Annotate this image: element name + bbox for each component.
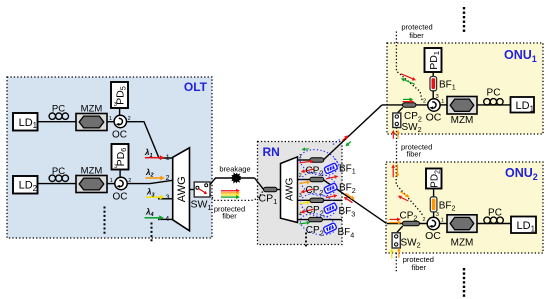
svg-text:3: 3	[114, 102, 117, 108]
svg-text:MZM: MZM	[81, 165, 103, 176]
blue protection loop row4	[298, 210, 338, 238]
filter BF2 ONU2	[430, 197, 437, 212]
orange arrow up below ONU2	[398, 251, 400, 258]
coupler CP2 row2	[310, 177, 324, 181]
red arrow row1 tilted	[326, 177, 335, 179]
wire RN row3 continues to edge	[324, 199, 342, 201]
polarization controller PC ONU2	[484, 217, 490, 223]
svg-text:OC: OC	[112, 130, 127, 141]
svg-text:1: 1	[441, 218, 444, 224]
filter BF1 RN	[324, 163, 338, 174]
breakage star	[230, 172, 242, 183]
wire AWG to SW1	[190, 189, 195, 191]
lambda-4 arrow green	[145, 217, 160, 219]
svg-text:1: 1	[109, 116, 112, 122]
svg-text:MZM: MZM	[451, 237, 474, 248]
ellipsis dots RN below row4	[305, 233, 307, 235]
svg-text:MZM: MZM	[81, 104, 103, 115]
green arrow protection diag ONU1	[404, 80, 414, 84]
svg-text:fiber: fiber	[412, 263, 427, 272]
svg-text:OLT: OLT	[184, 80, 208, 94]
wire OC2 to AWG input 2	[127, 180, 173, 183]
protected fiber dotted wire from SW1 to CP1	[210, 190, 263, 200]
red arrow above CP2 ONU1	[403, 101, 411, 103]
ellipsis dots below OLT row2	[104, 207, 106, 209]
green arrow RN to ONU1 upstream	[348, 142, 350, 144]
RN block box	[258, 142, 343, 245]
modulator MZM1	[76, 114, 107, 131]
svg-text:OC: OC	[426, 112, 442, 124]
wire bend down to CP1	[255, 178, 264, 189]
laser LD1 ONU1	[511, 97, 535, 113]
laser LD2	[13, 176, 38, 194]
wire MZM to LD ONU1	[477, 104, 511, 106]
wire OC2 to PD6	[119, 170, 121, 178]
protected path arrow yellow	[221, 194, 236, 196]
circulator OC ONU1	[428, 99, 440, 111]
modulator MZM2	[76, 176, 107, 193]
svg-text:2: 2	[166, 175, 170, 182]
wire LD1 to MZM1	[38, 121, 77, 123]
svg-text:MZM: MZM	[451, 115, 474, 126]
coupler CP2 ONU2	[403, 221, 420, 226]
blue protection loop row2	[298, 169, 338, 200]
svg-text:AWG: AWG	[176, 176, 188, 202]
coupler CP2 row1	[310, 158, 324, 162]
svg-text:2: 2	[299, 173, 302, 179]
circulator OC1	[114, 115, 126, 127]
svg-text:fiber: fiber	[407, 149, 422, 158]
wire OC1 to PD5	[119, 108, 121, 115]
lambda-3 arrow yellow	[146, 196, 160, 198]
laser LD1	[13, 113, 38, 131]
ONU1 block box	[387, 43, 543, 134]
laser LD ONU2	[511, 217, 536, 234]
blue loop exit dots row1	[334, 159, 342, 172]
svg-text:OC: OC	[425, 230, 441, 242]
lambda-1 arrow red	[145, 157, 160, 159]
wire RN row1 diagonal to ONU1	[324, 105, 382, 160]
protected path arrow red	[221, 190, 236, 192]
wire OC to MZM ONU1	[440, 104, 447, 106]
wire MZM to LD ONU2	[477, 223, 511, 225]
svg-text:OC: OC	[113, 191, 128, 202]
wire CP1 to AWG RN	[277, 189, 281, 191]
red arrow left of CP2 ONU2	[390, 218, 398, 220]
orange arrow left of CP2 ONU2	[390, 222, 399, 224]
polarization controller PC row1	[49, 113, 55, 119]
wire main line ONU1	[382, 104, 428, 106]
polarization controller PC ONU1	[484, 99, 490, 105]
wire BF1 to OC ONU1	[432, 91, 434, 99]
yellow arrow up below ONU2	[391, 252, 393, 259]
coupler CP2 row3	[310, 198, 324, 202]
photodiode PD2	[426, 169, 442, 189]
protected path arrow orange	[221, 192, 236, 194]
wire RN row2 diagonal through BF2 to ONU2	[324, 180, 387, 223]
red arrow row3 upstream	[304, 209, 313, 211]
AWG OLT	[173, 148, 190, 231]
red arrow protection diag ONU1	[401, 74, 413, 79]
svg-text:breakage: breakage	[219, 164, 250, 173]
svg-text:PC: PC	[487, 87, 501, 98]
green arrow row4 downstream	[300, 223, 307, 224]
wire RN row2	[298, 179, 311, 181]
ONU2 block box	[386, 162, 543, 253]
AWG RN	[281, 157, 298, 223]
filter BF2 RN	[324, 183, 338, 194]
wire OC to MZM ONU2	[440, 223, 447, 225]
polarization controller PC row2	[49, 175, 55, 181]
wire SW2 to CP2 ONU2	[397, 226, 403, 233]
OLT block box	[7, 77, 212, 238]
photodiode PD1	[425, 48, 442, 72]
svg-text:3: 3	[114, 164, 117, 170]
red arrow RN to ONU1 downstream	[342, 138, 345, 141]
svg-text:3: 3	[166, 195, 170, 202]
red arrow row1 downstream	[300, 161, 310, 162]
orange arrow up ONU1 bottom	[397, 133, 399, 138]
wire PD2 to BF2	[433, 189, 435, 197]
blue protection loop row1	[297, 145, 341, 179]
modulator MZM ONU2	[447, 215, 477, 233]
wire RN row1	[298, 159, 311, 161]
photodiode PD6	[112, 144, 129, 170]
coupler CP1	[264, 187, 278, 192]
red arrow row2 upstream	[304, 189, 313, 191]
orange arrow down ONU2 top	[397, 164, 399, 173]
orange arrow row2 downstream	[300, 182, 307, 183]
green arrow on loop row1	[305, 148, 309, 150]
protected fiber dashed ONU2 from top	[396, 162, 423, 216]
wire RN row4	[298, 219, 343, 221]
blue dots crossing RN top border	[333, 139, 341, 145]
coupler CP2 ONU1	[403, 103, 417, 108]
svg-text:4: 4	[165, 216, 169, 223]
modulator MZM ONU1	[447, 97, 477, 115]
ellipsis dots below ONU2	[463, 268, 465, 270]
protected fiber dashed ONU1 down to ONU2	[396, 128, 398, 163]
svg-text:1: 1	[166, 155, 170, 162]
wire BF2 to OC ONU2	[433, 212, 435, 217]
svg-text:fiber: fiber	[222, 212, 237, 221]
protected fiber dashed ONU1 from top	[396, 32, 422, 103]
svg-text:fiber: fiber	[409, 31, 424, 40]
red arrow up ONU1 bottom	[392, 133, 394, 138]
svg-text:2: 2	[128, 116, 131, 122]
svg-text:2: 2	[423, 217, 426, 223]
green arrow above CP2 ONU1	[403, 98, 410, 100]
filter BF1 ONU1	[430, 77, 437, 91]
wire stub AWG input 3	[158, 198, 173, 200]
svg-text:2: 2	[423, 99, 426, 105]
red arrow up ONU2 top	[392, 168, 394, 177]
wire SW2 to CP2 ONU1	[397, 107, 403, 113]
blue protection loop row3	[298, 190, 338, 221]
svg-text:3: 3	[299, 193, 302, 199]
protected path arrow green	[221, 196, 236, 198]
orange arrow RN to ONU2 downstream	[346, 193, 352, 197]
ellipsis dots above ONU1	[463, 7, 465, 9]
wire MZM1 to OC1	[107, 121, 114, 123]
switch SW2 ONU2	[392, 233, 400, 248]
wire LD2 to MZM2	[38, 183, 77, 185]
circulator OC ONU2	[427, 217, 439, 229]
protected fiber dashed below ONU2	[395, 253, 397, 273]
photodiode PD5	[111, 82, 128, 108]
filter BF3 RN	[323, 203, 337, 214]
switch SW2 ONU1	[393, 113, 401, 128]
ellipsis dots below lambda-4 input	[151, 223, 153, 225]
wire SW1 to breakage line	[210, 178, 255, 185]
switch SW1	[194, 182, 210, 197]
filter BF4 RN	[323, 223, 337, 234]
yellow arrow row3 downstream	[300, 203, 307, 204]
red arrow row1 upstream	[305, 169, 315, 171]
svg-text:1: 1	[110, 178, 113, 184]
wire RN row3	[298, 199, 311, 201]
wire stub AWG input 4	[158, 218, 173, 220]
wire OC1 to AWG input 1	[127, 122, 173, 158]
coupler CP2 row4	[309, 217, 323, 221]
svg-text:AWG: AWG	[284, 177, 295, 201]
red arrow RN to ONU2 upstream	[347, 199, 353, 203]
red arrow protection diag ONU2	[401, 197, 408, 201]
wire main line ONU2	[387, 223, 428, 225]
wire MZM2 to OC2	[107, 183, 115, 185]
svg-text:1: 1	[441, 99, 444, 105]
circulator OC2	[115, 177, 127, 189]
orange arrow protection diag ONU2	[400, 192, 406, 196]
red arrow row2 tilted	[326, 196, 334, 198]
svg-text:RN: RN	[263, 145, 280, 159]
lambda-2 arrow orange	[146, 177, 161, 179]
wire PD1 to BF1	[432, 72, 434, 77]
